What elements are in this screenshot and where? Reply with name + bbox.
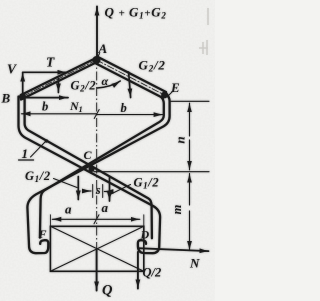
dimension b line [22,113,97,115]
arrow Q/2 (bottom right) [137,252,139,289]
arrow G1/2 right [109,178,111,202]
joint C [89,166,95,172]
bar AB centerline [23,60,97,97]
angle arc alpha [97,81,120,88]
joint A [93,56,101,64]
ref line top right (from E level) [170,100,209,102]
joint B [19,93,26,100]
left bent bar B to D (inner line) [25,97,152,239]
arrow G2/2 left [57,79,59,93]
extension line left box corner [49,215,51,226]
arrow V at B [22,73,24,95]
bar AE (upper right link) [95,57,166,98]
arrow T at B [23,71,67,73]
bar AB (upper left link) [21,57,98,100]
center line (vertical dash-dot axis) [96,56,98,272]
leader E [167,91,174,98]
box diagonal DF' [50,226,143,271]
left bent bar B to D (outer line) [19,97,161,254]
leader label 1 [31,142,46,158]
right bent bar E to F (outer line) [27,93,169,253]
arrow Q+G1+G2 (top) [96,7,98,58]
arrow N1 at B [24,97,68,99]
joint E [161,92,168,99]
leader G1/2 left [54,179,78,188]
dimension m line [189,174,191,205]
box diagonal FD' [50,226,143,271]
dimension n line [189,103,191,136]
leader A [98,54,100,58]
dimension a line left [52,218,96,220]
ref line mid right (from C level) [94,171,209,173]
leader G1/2 right [111,185,131,195]
label 1 underline [19,159,34,161]
arrow G2/2 right [129,72,131,98]
dimension s arrows [83,190,92,192]
dimension a line right [96,218,139,220]
N axis line [138,248,209,251]
ghost show-through marks [199,8,208,55]
platform box [50,226,143,271]
dimension s ticks [92,185,94,198]
dimension b center tick [94,110,99,119]
arrow Q (bottom center) [96,250,98,291]
right bent bar E to F (inner line) [40,97,164,237]
arrow G1/2 left [77,177,79,200]
bar AE centerline [97,60,165,95]
dimension a center tick [94,215,99,224]
extension line right box corner [143,215,145,226]
